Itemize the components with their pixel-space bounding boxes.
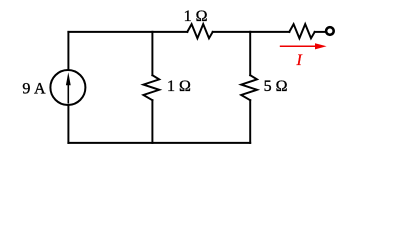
- current source I1 circle: [50, 70, 85, 105]
- wire left vertical bottom (current source to bottom wire): [67, 105, 69, 143]
- wire left vertical top (node A down to current source): [67, 32, 69, 70]
- svg-text:5 Ω: 5 Ω: [264, 78, 288, 95]
- resistor R3 5ohm vertical zigzag: [241, 75, 257, 100]
- resistor R2 1ohm horizontal zigzag: [187, 24, 212, 38]
- svg-text:9 A: 9 A: [22, 80, 46, 97]
- svg-text:1 Ω: 1 Ω: [184, 8, 208, 25]
- wire right vertical top (node C to R3): [249, 32, 251, 75]
- open terminal circle: [326, 27, 334, 35]
- svg-text:1 Ω: 1 Ω: [167, 78, 191, 95]
- wire R4 to terminal: [315, 31, 326, 33]
- current I arrowhead (red): [315, 43, 327, 49]
- wire top node B to R2: [152, 31, 187, 33]
- svg-text:I: I: [296, 52, 303, 69]
- wire mid vertical top (node B to R1): [151, 32, 153, 75]
- wire node C to R4: [250, 31, 289, 33]
- wire R3 to bottom wire: [249, 100, 251, 143]
- bottom wire: [68, 142, 250, 144]
- wire top-left horizontal (node A to node B): [68, 31, 152, 33]
- resistor R4 (unlabeled) horizontal zigzag: [289, 24, 314, 38]
- current I arrow (red) shaft: [280, 45, 315, 47]
- current source arrowhead: [66, 72, 71, 85]
- wire R2 to node C: [213, 31, 251, 33]
- resistor R1 1ohm vertical zigzag: [143, 75, 159, 100]
- current source arrow shaft: [67, 80, 69, 103]
- wire R1 to bottom wire: [151, 100, 153, 143]
